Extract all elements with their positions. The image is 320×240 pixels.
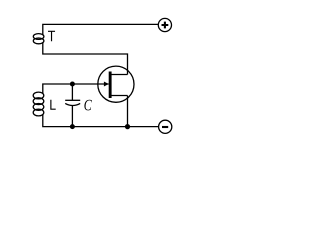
- junction dot C top: [70, 82, 75, 87]
- wire capacitor top lead: [71, 84, 73, 100]
- inductor L: [33, 92, 44, 99]
- wire tank top / gate wire: [43, 84, 109, 94]
- junction dot C bottom: [70, 124, 75, 129]
- minus sign: [162, 126, 168, 128]
- terminal + circle: [158, 18, 171, 31]
- plus sign: [162, 22, 169, 29]
- JFET channel bar: [109, 72, 112, 99]
- terminal - circle: [159, 120, 172, 133]
- label T: [48, 31, 55, 41]
- wire capacitor bottom lead: [71, 106, 73, 127]
- wire top rail from T top to + terminal: [43, 24, 159, 35]
- junction dot source / bottom rail: [125, 124, 130, 129]
- JFET source lead inside: [110, 95, 127, 97]
- wire source lead down: [127, 96, 129, 127]
- label C: [84, 100, 91, 111]
- JFET drain lead inside: [110, 74, 127, 76]
- label L: [50, 100, 55, 110]
- JFET gate arrow: [104, 82, 109, 87]
- capacitor C plates: [65, 99, 80, 101]
- Armstrong oscillator schematic: [0, 0, 250, 150]
- wire T bottom to drain: [43, 42, 128, 74]
- wire bottom rail from L bottom to - terminal: [43, 114, 159, 126]
- JFET U1 circle: [98, 66, 134, 102]
- inductor T: [33, 34, 44, 40]
